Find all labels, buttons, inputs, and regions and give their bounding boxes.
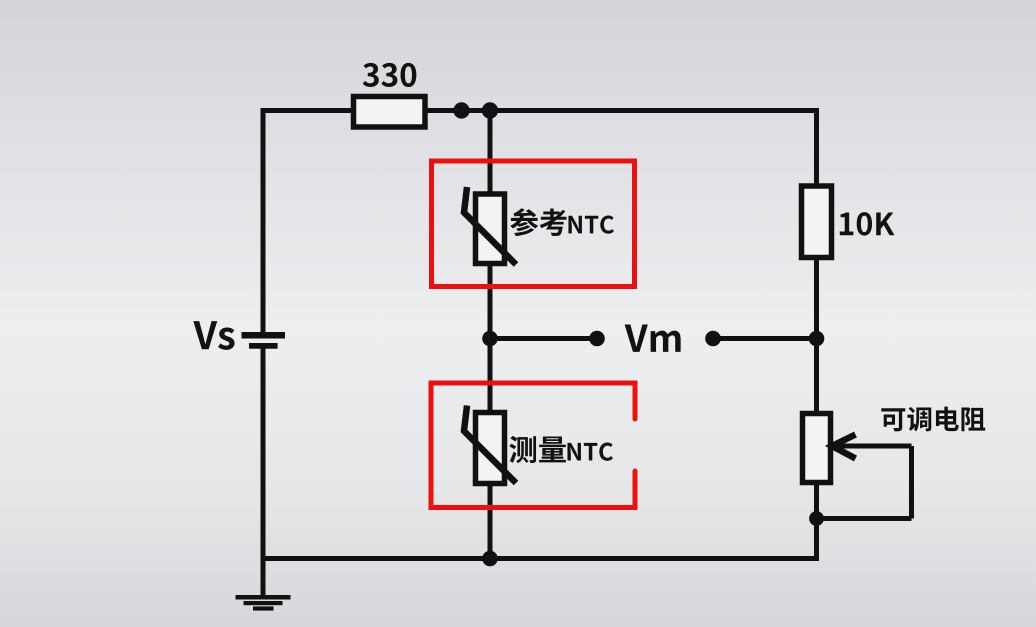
- label Vs: [193, 321, 234, 350]
- wire bottom net ground: [263, 556, 817, 561]
- label 可调电阻: [881, 407, 985, 432]
- wire left vertical from top to battery: [261, 108, 266, 335]
- node junction dot on right branch at Vm level: [809, 331, 825, 347]
- label 测量NTC: [509, 436, 613, 463]
- node junction dot top-left: [453, 102, 469, 118]
- wire Vm stub right: [713, 336, 817, 341]
- wire top net Vs+ to R330 to node A: [263, 108, 817, 113]
- label Vm: [625, 324, 681, 351]
- potentiometer wiper arrow: [832, 435, 856, 459]
- battery Vs: [242, 332, 286, 349]
- node junction dot bottom of middle branch: [482, 551, 498, 567]
- node Vm junction dot on middle branch: [482, 331, 498, 347]
- resistor R1 330: [354, 97, 426, 128]
- red box around 测量NTC (gap on right side): [431, 383, 635, 508]
- red box around 参考NTC: [432, 161, 635, 287]
- wire Vm stub left: [490, 336, 597, 341]
- thermistor RT1 参考NTC: [464, 187, 516, 265]
- wire right vertical down to bottom: [814, 108, 819, 561]
- label 参考NTC: [510, 208, 614, 236]
- potentiometer RV1 body: [803, 414, 831, 483]
- node A junction dot top of middle branch: [482, 102, 498, 118]
- node Vm right terminal dot: [705, 331, 721, 347]
- thermistor RT2 测量NTC: [464, 406, 516, 484]
- wire middle vertical node A down to bottom: [488, 108, 493, 561]
- label 10K: [840, 212, 895, 236]
- ground: [236, 559, 291, 611]
- label 330: [363, 63, 417, 87]
- node junction dot wiper return: [809, 511, 824, 526]
- wire potentiometer wiper loop: [817, 446, 912, 519]
- wire left vertical battery to bottom: [261, 346, 266, 561]
- node Vm left terminal dot: [589, 331, 605, 347]
- resistor R2 10K: [802, 186, 832, 258]
